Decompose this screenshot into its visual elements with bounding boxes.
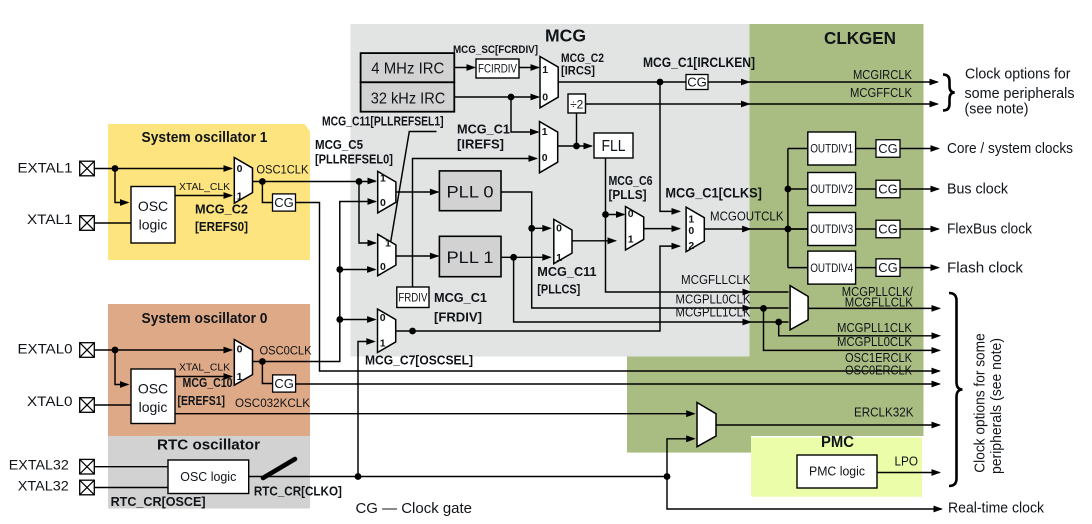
svg-text:PLL 0: PLL 0: [447, 182, 494, 201]
svg-text:OUTDIV3: OUTDIV3: [810, 224, 853, 236]
wire PLLREFSEL0 mux to PLL 0: [396, 191, 438, 193]
wire 4MHz IRC to FCIRDIV: [454, 67, 474, 69]
wire ERCLK32K output: [716, 424, 940, 426]
background region: PMC (light yellow-green): [751, 438, 922, 497]
svg-text:0: 0: [556, 223, 562, 235]
svg-text:Real-time clock: Real-time clock: [948, 500, 1044, 517]
svg-text:MCG_C1[IRCLKEN]: MCG_C1[IRCLKEN]: [643, 54, 755, 70]
divider by 2 box: [568, 94, 586, 113]
svg-text:1: 1: [556, 252, 562, 264]
svg-text:MCG_C11[PLLREFSEL1]: MCG_C11[PLLREFSEL1]: [322, 115, 444, 129]
divider OUTDIV1: [788, 148, 808, 150]
svg-text:1: 1: [237, 371, 243, 383]
wire XTAL1 to OSC logic: [94, 222, 131, 224]
svg-text:MCGOUTCLK: MCGOUTCLK: [710, 210, 784, 224]
divider OUTDIV4: [788, 267, 808, 269]
wire OUTDIV1 output: [900, 148, 939, 150]
svg-text:MCG_C11: MCG_C11: [537, 264, 596, 279]
svg-text:Clock options for: Clock options for: [965, 66, 1071, 82]
svg-text:0: 0: [688, 225, 694, 237]
wire XTAL_CLK to mux input 1: [175, 195, 232, 197]
clock gate CG (IRCLKEN): [686, 75, 708, 90]
mux ERCLK32K select: [697, 403, 716, 447]
wire RTC clock line: [249, 476, 667, 478]
svg-text:MCG_C1[CLKS]: MCG_C1[CLKS]: [665, 184, 762, 200]
svg-text:[PLLREFSEL0]: [PLLREFSEL0]: [315, 153, 393, 167]
svg-text:0: 0: [380, 261, 386, 273]
svg-text:OSC032KCLK: OSC032KCLK: [235, 398, 310, 410]
svg-text:0: 0: [628, 208, 634, 220]
svg-text:MCG_C2: MCG_C2: [195, 202, 248, 217]
mux MCG_C5[PLLREFSEL0]: [378, 171, 396, 213]
svg-text:CG — Clock gate: CG — Clock gate: [356, 500, 473, 517]
svg-text:2: 2: [688, 240, 694, 252]
wire FLL output down / MCGFLLCLK: [606, 158, 789, 292]
background region: MCG (light gray): [351, 24, 750, 357]
svg-text:ERCLK32K: ERCLK32K: [854, 406, 914, 420]
svg-text:peripherals (see note): peripherals (see note): [988, 338, 1005, 474]
wire OSC1CLK to PLLREFSEL muxes: [253, 181, 376, 183]
svg-text:[FRDIV]: [FRDIV]: [434, 310, 482, 325]
wire IREFS mux output to FLL: [558, 145, 592, 147]
wire OSC0CLK branch to PLLREFSEL1 input 0: [340, 269, 375, 271]
svg-text:RTC_CR[OSCE]: RTC_CR[OSCE]: [111, 494, 206, 509]
svg-text:CG: CG: [687, 75, 707, 90]
mux MCG_C7[OSCSEL]: [378, 309, 396, 353]
svg-text:OSC: OSC: [138, 381, 168, 397]
svg-text:logic: logic: [139, 217, 168, 233]
divider OUTDIV3: [788, 228, 808, 230]
svg-text:MCG_C6: MCG_C6: [609, 173, 653, 188]
svg-text:0: 0: [380, 197, 386, 209]
svg-text:[IRCS]: [IRCS]: [561, 64, 595, 78]
svg-text:MCGPLL0CLK: MCGPLL0CLK: [676, 293, 752, 307]
block FLL: [594, 133, 633, 158]
wire IRC branch down to CLKS mux input 1: [660, 82, 680, 211]
svg-text:PMC: PMC: [821, 434, 854, 451]
svg-text:System oscillator 1: System oscillator 1: [142, 130, 268, 146]
svg-text:MCGPLL0CLK: MCGPLL0CLK: [837, 335, 913, 349]
svg-text:MCG_C1: MCG_C1: [457, 122, 510, 137]
svg-text:CG: CG: [878, 260, 898, 275]
svg-text:Clock options for some: Clock options for some: [972, 333, 989, 473]
svg-text:MCG: MCG: [545, 26, 586, 46]
background region: System oscillator 1 (yellow): [108, 124, 310, 260]
svg-text:Flash clock: Flash clock: [947, 259, 1023, 276]
svg-text:Bus clock: Bus clock: [947, 181, 1008, 198]
svg-text:CG: CG: [878, 141, 898, 156]
svg-text:÷2: ÷2: [570, 98, 584, 112]
svg-text:XTAL32: XTAL32: [18, 478, 69, 494]
brace for MCGIRCLK/MCGFFCLK clock options: [943, 75, 955, 111]
svg-text:EXTAL1: EXTAL1: [18, 159, 73, 175]
clock gate CG (osc0): [273, 375, 296, 392]
svg-text:0: 0: [542, 152, 548, 164]
wire XTAL_CLK to mux input 1 (osc0): [175, 376, 232, 378]
svg-text:MCG_C5: MCG_C5: [315, 138, 363, 152]
svg-text:0: 0: [542, 92, 548, 104]
svg-text:LPO: LPO: [895, 455, 919, 469]
wire EXTAL0 branch to OSC logic: [115, 350, 128, 385]
mux MCG_C6[PLLS]: [626, 207, 644, 251]
wire MCGIRCLK line with CG: [558, 81, 937, 83]
background region: RTC oscillator (gray): [108, 436, 310, 509]
svg-text:XTAL1: XTAL1: [27, 211, 73, 227]
svg-text:XTAL_CLK: XTAL_CLK: [179, 181, 230, 193]
svg-text:1: 1: [542, 64, 548, 76]
wire RTC branch up to OSCSEL mux input 1: [358, 342, 374, 477]
svg-text:OUTDIV2: OUTDIV2: [810, 184, 853, 196]
svg-text:CG: CG: [274, 376, 294, 391]
wire FLL branch to PLLS mux input 0: [606, 214, 625, 216]
wire PLL1 output to PLLCS input 1 and MCGPLL1CLK: [501, 256, 550, 258]
block 32 kHz IRC: [361, 82, 455, 111]
svg-text:1: 1: [688, 214, 694, 226]
background region: CLKGEN lower-left extension (green): [627, 357, 751, 453]
wire PLLREFSEL1 mux to PLL 1: [396, 255, 438, 257]
svg-text:MCG_C7[OSCSEL]: MCG_C7[OSCSEL]: [365, 353, 473, 368]
wire OSC0CLK branch to OSCSEL input 0: [340, 319, 375, 321]
block PMC logic: [797, 455, 877, 488]
wire osc0 output to CG: [262, 362, 273, 384]
svg-text:XTAL_CLK: XTAL_CLK: [179, 362, 230, 374]
svg-text:FlexBus clock: FlexBus clock: [947, 221, 1032, 238]
svg-text:EXTAL0: EXTAL0: [18, 341, 73, 357]
clock gate CG (OUTDIV4): [876, 259, 900, 277]
svg-text:CG: CG: [274, 195, 294, 210]
svg-text:1: 1: [542, 126, 548, 138]
wire MCGOUTCLK: [704, 228, 808, 230]
svg-text:MCGFLLCLK: MCGFLLCLK: [845, 296, 914, 310]
wire EXTAL32 to OSC logic: [94, 466, 168, 468]
svg-text:1: 1: [628, 234, 634, 246]
wire EXTAL0 to mux input 0: [94, 349, 231, 351]
svg-text:OSC0ERCLK: OSC0ERCLK: [845, 364, 913, 378]
wire MCGPLL0CLK output (right): [764, 308, 940, 350]
svg-text:MCGPLL1CLK: MCGPLL1CLK: [676, 306, 752, 320]
wire OSCSEL output external reference to CLKS input 2: [396, 246, 680, 331]
wire OUTDIV3 output: [900, 228, 939, 230]
wire MCGFFCLK line: [586, 103, 938, 105]
svg-text:[EREFS1]: [EREFS1]: [178, 394, 226, 408]
svg-text:[PLLS]: [PLLS]: [609, 187, 647, 202]
svg-text:logic: logic: [139, 399, 168, 415]
divider OUTDIV2: [788, 188, 808, 190]
block OSC logic (osc0): [131, 369, 175, 424]
svg-text:0: 0: [237, 344, 243, 356]
wire 32kHz branch to IREFS mux input 1: [511, 97, 538, 132]
svg-text:System oscillator 0: System oscillator 0: [142, 311, 268, 327]
block OSC logic (osc1): [131, 187, 175, 244]
mux MCG_C1[IREFS]: [540, 122, 558, 173]
svg-text:OUTDIV1: OUTDIV1: [810, 144, 853, 156]
clock gate CG (osc1): [273, 194, 296, 211]
wire FCIRDIV to IRCS mux input 1: [519, 67, 539, 69]
svg-text:0: 0: [380, 312, 386, 324]
svg-text:XTAL0: XTAL0: [27, 393, 73, 409]
svg-text:(see note): (see note): [965, 102, 1029, 118]
svg-text:1: 1: [380, 338, 386, 350]
svg-text:[IREFS]: [IREFS]: [457, 137, 504, 152]
wire PLL0 output to PLLCS input 0 and MCGPLL0CLK: [501, 192, 789, 308]
background region: System oscillator 0 (orange): [108, 304, 310, 436]
wire RTC to Real-time clock output: [667, 477, 942, 510]
clock gate CG (OUTDIV3): [876, 220, 900, 238]
svg-text:EXTAL32: EXTAL32: [9, 456, 69, 472]
svg-text:OSC0CLK: OSC0CLK: [260, 345, 312, 357]
background region: CLKGEN (green): [750, 24, 924, 436]
svg-text:MCG_C1: MCG_C1: [434, 290, 487, 305]
wire MCGPLL1CLK output (right): [779, 322, 940, 336]
clock gate CG (OUTDIV1): [876, 140, 900, 158]
svg-text:PLL 1: PLL 1: [447, 248, 494, 267]
wire EXTAL1 to mux input 0: [94, 168, 231, 170]
wire LPO output: [877, 472, 940, 474]
svg-text:FCIRDIV: FCIRDIV: [478, 63, 517, 75]
svg-text:RTC_CR[CLKO]: RTC_CR[CLKO]: [254, 484, 342, 499]
switch RTC_CR[CLKO] (thick slash): [263, 459, 295, 478]
wire OSC0CLK up to MCG muxes: [253, 202, 376, 362]
svg-text:OUTDIV4: OUTDIV4: [810, 263, 854, 275]
wire XTAL0 to OSC logic: [94, 404, 131, 406]
svg-text:CG: CG: [878, 182, 898, 197]
wire 32kHz IRC to IRCS mux input 0: [454, 96, 538, 98]
svg-text:RTC oscillator: RTC oscillator: [157, 438, 260, 454]
wire PLLCS output to PLLS input 1: [572, 240, 616, 242]
mux MCG_C11[PLLREFSEL1]: [378, 234, 396, 275]
wire XTAL32 to OSC logic: [94, 487, 168, 489]
svg-text:Core / system clocks: Core / system clocks: [947, 140, 1073, 157]
svg-text:32 kHz IRC: 32 kHz IRC: [371, 90, 446, 107]
svg-text:1: 1: [385, 237, 391, 249]
block 4 MHz IRC: [361, 53, 455, 82]
svg-text:OSC logic: OSC logic: [180, 470, 236, 484]
svg-text:0: 0: [237, 163, 243, 175]
svg-text:MCG_SC[FCRDIV]: MCG_SC[FCRDIV]: [453, 44, 538, 56]
wire OUTDIV distribution vertical: [787, 149, 789, 268]
wire OSC032KCLK from OSC logic to ERCLK32K mux: [175, 413, 694, 415]
divider FCIRDIV: [476, 59, 519, 78]
wire div2 stem to FLL input line: [576, 113, 578, 146]
block OSC logic (RTC): [168, 460, 249, 494]
wire FRDIV up to IREFS mux input 0: [413, 159, 537, 288]
svg-text:MCGFLLCLK: MCGFLLCLK: [681, 273, 751, 287]
wire PLLS output to CLKS input 0: [644, 228, 680, 230]
svg-text:CLKGEN: CLKGEN: [824, 28, 896, 48]
wire osc1 output to CG: [262, 182, 273, 203]
svg-text:FRDIV: FRDIV: [398, 293, 427, 305]
mux MCG_C2[EREFS0] (osc1): [234, 158, 252, 204]
wire EXTAL1 branch to OSC logic: [115, 169, 128, 203]
svg-text:OSC1CLK: OSC1CLK: [256, 165, 308, 177]
mux MCG_C2[IRCS]: [540, 57, 558, 108]
clock gate CG (OUTDIV2): [876, 180, 900, 198]
svg-text:some peripherals: some peripherals: [965, 86, 1075, 102]
svg-text:[EREFS0]: [EREFS0]: [195, 219, 248, 234]
svg-text:FLL: FLL: [602, 138, 626, 155]
mux MCG_C10[EREFS1] (osc0): [234, 340, 252, 386]
wire OSC1ERCLK from CG to output arrow: [296, 203, 940, 372]
mux MCGPLLCLK/MCGFLLCLK select: [790, 286, 808, 330]
svg-text:4 MHz IRC: 4 MHz IRC: [371, 61, 444, 78]
block PLL 1: [439, 236, 501, 276]
wire OSC0ERCLK from CG to output arrow: [296, 383, 940, 385]
mux MCG_C1[CLKS]: [686, 207, 704, 252]
wire OSC1CLK branch down to PLLREFSEL1 mux input 1: [359, 182, 376, 244]
mux MCG_C11[PLLCS]: [554, 219, 572, 263]
svg-text:[PLLCS]: [PLLCS]: [537, 281, 580, 296]
svg-text:1: 1: [380, 173, 386, 185]
big brace for peripheral clock options: [949, 293, 963, 486]
wire MCGPLLCLK/MCGFLLCLK output: [808, 307, 939, 309]
svg-text:MCG_C10: MCG_C10: [183, 376, 233, 390]
svg-text:MCGPLL1CLK: MCGPLL1CLK: [837, 321, 913, 335]
svg-text:OSC: OSC: [138, 198, 168, 214]
block PLL 0: [439, 171, 501, 211]
wire RTC branch to ERCLK32K mux input: [667, 439, 694, 477]
svg-text:MCGFFCLK: MCGFFCLK: [850, 86, 913, 100]
svg-text:CG: CG: [878, 222, 898, 237]
svg-text:MCGIRCLK: MCGIRCLK: [853, 68, 913, 82]
wire OUTDIV4 output: [900, 267, 939, 269]
wire OUTDIV2 output: [900, 188, 939, 190]
svg-text:PMC logic: PMC logic: [809, 465, 865, 479]
divider FRDIV: [397, 287, 429, 308]
